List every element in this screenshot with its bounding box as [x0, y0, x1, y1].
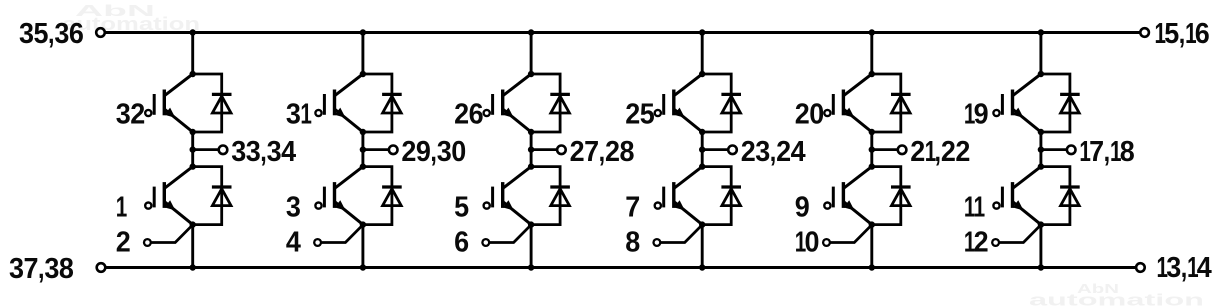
svg-text:21,22: 21,22: [910, 136, 970, 168]
wire auxiliary emitter terminal 12: [999, 225, 1041, 242]
node lower collector (leg 2): [360, 163, 366, 169]
wire auxiliary emitter terminal 10: [830, 225, 872, 242]
node lower emitter (leg 4): [699, 221, 705, 227]
terminal 13,14 circle: [1136, 263, 1145, 272]
terminal 27,28 circle: [557, 146, 566, 155]
diode D31 (upper, antiparallel): [382, 94, 402, 113]
leg 5: junction on top rail: [869, 29, 875, 35]
leg 5: junction on bottom rail: [869, 264, 875, 270]
node upper emitter (leg 1): [190, 129, 196, 135]
leg 3: junction on top rail: [528, 29, 534, 35]
transistor Q1 (lower IGBT, gate 1): [145, 167, 193, 225]
svg-text:8: 8: [625, 227, 640, 259]
wire midpoint stub to terminal 33,34: [193, 148, 220, 151]
leg 2: wire upper emitter to lower collector: [361, 132, 364, 167]
diode D20 (upper, antiparallel): [891, 94, 911, 113]
leg 4: junction on top rail: [699, 29, 705, 35]
node lower collector (leg 5): [869, 163, 875, 169]
svg-text:11: 11: [964, 192, 985, 224]
leg 1: junction on bottom rail: [190, 264, 196, 270]
leg 4: lower freewheel diode branch wire: [702, 167, 731, 225]
terminal 10 circle: [823, 239, 830, 246]
terminal 8 circle: [654, 239, 661, 246]
node upper collector (leg 6): [1038, 71, 1044, 77]
diode D7 (lower, antiparallel): [721, 187, 741, 206]
leg 4: junction on bottom rail: [699, 264, 705, 270]
wire auxiliary emitter terminal 8: [660, 225, 702, 242]
leg 5: lower freewheel diode branch wire: [872, 167, 901, 225]
node lower collector (leg 6): [1038, 163, 1044, 169]
transistor Q19 (upper IGBT, gate 19): [993, 74, 1041, 132]
leg 3: junction on bottom rail: [528, 264, 534, 270]
leg 5: upper freewheel diode branch wire: [872, 74, 901, 132]
svg-text:automation: automation: [1029, 291, 1204, 306]
terminal 29,30 circle: [389, 146, 398, 155]
leg 1: wire upper emitter to lower collector: [191, 132, 194, 167]
node upper collector (leg 5): [869, 71, 875, 77]
node lower emitter (leg 1): [190, 221, 196, 227]
diode D1 (lower, antiparallel): [212, 187, 232, 206]
svg-text:7: 7: [625, 192, 640, 224]
leg 1: wire lower emitter to bottom rail: [191, 225, 194, 268]
leg 1: upper freewheel diode branch wire: [193, 74, 222, 132]
transistor Q5 (lower IGBT, gate 5): [484, 167, 532, 225]
diode D11 (lower, antiparallel): [1060, 187, 1080, 206]
svg-text:6: 6: [454, 227, 469, 259]
node upper collector (leg 3): [528, 71, 534, 77]
diode D26 (upper, antiparallel): [550, 94, 570, 113]
diode D19 (upper, antiparallel): [1060, 94, 1080, 113]
leg 4: wire top rail to upper collector: [701, 33, 704, 75]
leg 1: lower freewheel diode branch wire: [193, 167, 222, 225]
terminal 6 circle: [482, 239, 489, 246]
svg-text:29,30: 29,30: [401, 136, 466, 168]
leg 6: upper freewheel diode branch wire: [1041, 74, 1070, 132]
svg-text:5: 5: [454, 192, 469, 224]
leg 2: wire lower emitter to bottom rail: [361, 225, 364, 268]
leg 5: wire upper emitter to lower collector: [870, 132, 873, 167]
leg 2: wire top rail to upper collector: [361, 33, 364, 75]
svg-text:37,38: 37,38: [9, 253, 74, 285]
node lower collector (leg 1): [190, 163, 196, 169]
node midpoint 21,22: [869, 146, 875, 152]
leg 3: lower freewheel diode branch wire: [531, 167, 560, 225]
svg-text:33,34: 33,34: [231, 136, 296, 168]
svg-text:3: 3: [286, 192, 301, 224]
node midpoint 17,18: [1038, 146, 1044, 152]
leg 4: wire lower emitter to bottom rail: [701, 225, 704, 268]
svg-text:15,16: 15,16: [1155, 18, 1210, 50]
transistor Q26 (upper IGBT, gate 26): [484, 74, 532, 132]
node lower collector (leg 3): [528, 163, 534, 169]
node lower emitter (leg 3): [528, 221, 534, 227]
node upper collector (leg 4): [699, 71, 705, 77]
wire top rail (35,36 bus): [105, 31, 1140, 34]
node lower emitter (leg 2): [360, 221, 366, 227]
leg 3: wire top rail to upper collector: [530, 33, 533, 75]
node upper emitter (leg 6): [1038, 129, 1044, 135]
leg 6: wire upper emitter to lower collector: [1039, 132, 1042, 167]
svg-text:2: 2: [116, 227, 131, 259]
wire midpoint stub to terminal 29,30: [363, 148, 390, 151]
svg-text:17,18: 17,18: [1079, 136, 1134, 168]
svg-text:9: 9: [795, 192, 810, 224]
wire auxiliary emitter terminal 4: [321, 225, 363, 242]
transistor Q3 (lower IGBT, gate 3): [315, 167, 363, 225]
svg-text:12: 12: [964, 227, 989, 259]
diode D5 (lower, antiparallel): [550, 187, 570, 206]
diode D3 (lower, antiparallel): [382, 187, 402, 206]
svg-text:4: 4: [286, 227, 301, 259]
leg 4: wire upper emitter to lower collector: [701, 132, 704, 167]
leg 2: junction on bottom rail: [360, 264, 366, 270]
transistor Q31 (upper IGBT, gate 31): [315, 74, 363, 132]
svg-text:10: 10: [795, 227, 820, 259]
wire midpoint stub to terminal 27,28: [531, 148, 558, 151]
svg-text:1: 1: [116, 192, 128, 224]
leg 3: wire lower emitter to bottom rail: [530, 225, 533, 268]
svg-text:19: 19: [964, 99, 989, 131]
leg 2: lower freewheel diode branch wire: [363, 167, 392, 225]
node upper emitter (leg 3): [528, 129, 534, 135]
terminal 35,36 circle: [96, 28, 105, 37]
svg-text:23,24: 23,24: [741, 136, 806, 168]
node midpoint 23,24: [699, 146, 705, 152]
terminal 23,24 circle: [728, 146, 737, 155]
terminal 33,34 circle: [219, 146, 228, 155]
transistor Q11 (lower IGBT, gate 11): [993, 167, 1041, 225]
node lower emitter (leg 6): [1038, 221, 1044, 227]
node midpoint 29,30: [360, 146, 366, 152]
node lower collector (leg 4): [699, 163, 705, 169]
svg-text:25: 25: [625, 99, 655, 131]
leg 5: wire top rail to upper collector: [870, 33, 873, 75]
terminal 37,38 circle: [97, 263, 106, 272]
diode D9 (lower, antiparallel): [891, 187, 911, 206]
node midpoint 27,28: [528, 146, 534, 152]
wire auxiliary emitter terminal 6: [489, 225, 530, 242]
svg-text:31: 31: [286, 99, 312, 131]
terminal 17,18 circle: [1067, 146, 1076, 155]
node lower emitter (leg 5): [869, 221, 875, 227]
leg 1: wire top rail to upper collector: [191, 33, 194, 75]
leg 1: junction on top rail: [190, 29, 196, 35]
transistor Q20 (upper IGBT, gate 20): [824, 74, 872, 132]
svg-text:26: 26: [454, 99, 484, 131]
leg 6: lower freewheel diode branch wire: [1041, 167, 1070, 225]
leg 6: junction on top rail: [1038, 29, 1044, 35]
svg-text:20: 20: [795, 99, 825, 131]
svg-text:32: 32: [116, 99, 146, 131]
svg-text:35,36: 35,36: [19, 18, 84, 50]
transistor Q25 (upper IGBT, gate 25): [655, 74, 703, 132]
node upper emitter (leg 2): [360, 129, 366, 135]
leg 5: wire lower emitter to bottom rail: [870, 225, 873, 268]
terminal 2 circle: [144, 239, 151, 246]
leg 2: junction on top rail: [360, 29, 366, 35]
node upper emitter (leg 5): [869, 129, 875, 135]
diode D32 (upper, antiparallel): [212, 94, 232, 113]
terminal 4 circle: [314, 239, 321, 246]
transistor Q9 (lower IGBT, gate 9): [824, 167, 872, 225]
leg 3: wire upper emitter to lower collector: [530, 132, 533, 167]
leg 6: junction on bottom rail: [1038, 264, 1044, 270]
wire bottom rail (37,38 bus): [105, 266, 1136, 269]
terminal 12 circle: [992, 239, 999, 246]
leg 6: wire top rail to upper collector: [1039, 33, 1042, 75]
transistor Q7 (lower IGBT, gate 7): [655, 167, 703, 225]
node upper collector (leg 2): [360, 71, 366, 77]
wire midpoint stub to terminal 23,24: [702, 148, 729, 151]
leg 2: upper freewheel diode branch wire: [363, 74, 392, 132]
node upper collector (leg 1): [190, 71, 196, 77]
leg 3: upper freewheel diode branch wire: [531, 74, 560, 132]
svg-text:13,14: 13,14: [1157, 252, 1212, 284]
svg-text:27,28: 27,28: [570, 136, 635, 168]
node upper emitter (leg 4): [699, 129, 705, 135]
diode D25 (upper, antiparallel): [721, 94, 741, 113]
wire midpoint stub to terminal 21,22: [872, 148, 899, 151]
transistor Q32 (upper IGBT, gate 32): [145, 74, 193, 132]
leg 6: wire lower emitter to bottom rail: [1039, 225, 1042, 268]
node midpoint 33,34: [190, 146, 196, 152]
terminal 21,22 circle: [898, 146, 907, 155]
leg 4: upper freewheel diode branch wire: [702, 74, 731, 132]
wire auxiliary emitter terminal 2: [151, 225, 193, 242]
wire midpoint stub to terminal 17,18: [1041, 148, 1068, 151]
terminal 15,16 circle: [1140, 28, 1149, 37]
